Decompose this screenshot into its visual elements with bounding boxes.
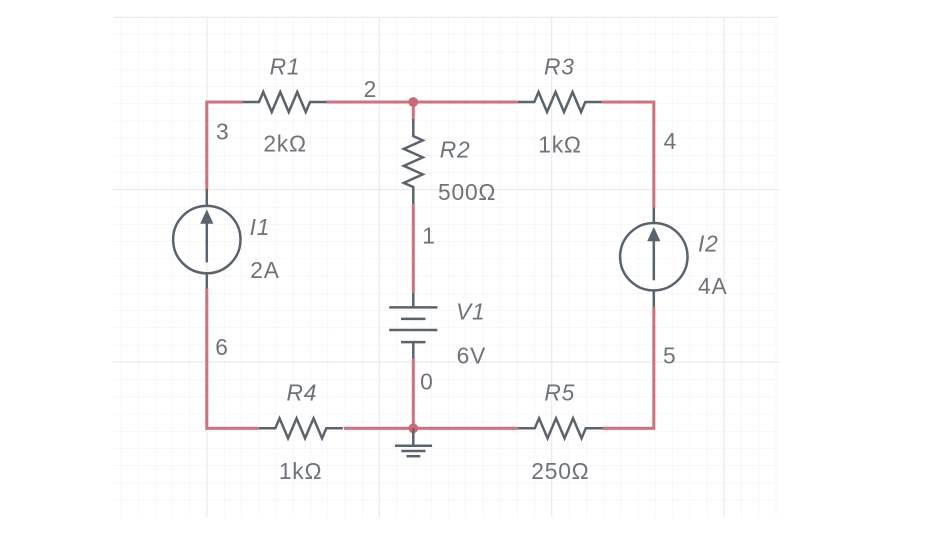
- svg-text:250Ω: 250Ω: [531, 458, 589, 484]
- svg-text:I1: I1: [250, 214, 271, 240]
- resistor R5: [518, 418, 602, 438]
- ground: [395, 428, 432, 456]
- svg-text:4A: 4A: [698, 273, 727, 299]
- svg-text:2kΩ: 2kΩ: [263, 131, 307, 157]
- resistor R3: [518, 92, 602, 112]
- junction node 0: [408, 423, 418, 433]
- svg-text:2: 2: [364, 76, 377, 102]
- resistor R2: [404, 119, 423, 204]
- svg-text:I2: I2: [698, 230, 719, 256]
- wire node 1 between R2 and V1: [412, 204, 415, 292]
- junction node 2: [408, 97, 418, 107]
- svg-text:R4: R4: [287, 379, 318, 405]
- svg-text:6: 6: [215, 334, 228, 360]
- wire bottom-right corner (node 5 run): [602, 307, 654, 428]
- svg-text:4: 4: [664, 128, 677, 154]
- svg-text:3: 3: [216, 119, 229, 145]
- wire left lower (node 6 run): [207, 289, 259, 429]
- svg-text:5: 5: [663, 343, 676, 369]
- current source I2: [620, 207, 687, 307]
- svg-text:R2: R2: [440, 137, 471, 163]
- svg-text:1: 1: [422, 222, 435, 248]
- resistor R4: [259, 418, 343, 438]
- svg-text:1kΩ: 1kΩ: [279, 458, 323, 484]
- wire mid stub node 2 to R2: [412, 102, 415, 119]
- svg-text:1kΩ: 1kΩ: [538, 131, 582, 157]
- wire top-mid (node 2): [327, 100, 518, 103]
- svg-text:6V: 6V: [457, 343, 486, 369]
- svg-text:0: 0: [420, 368, 433, 394]
- wire below V1 to node 0: [412, 359, 415, 429]
- svg-text:R3: R3: [544, 53, 575, 79]
- svg-text:2A: 2A: [250, 257, 279, 283]
- svg-text:V1: V1: [456, 298, 485, 324]
- svg-text:R5: R5: [544, 379, 575, 405]
- battery V1: [389, 293, 437, 359]
- current source I1: [173, 189, 240, 289]
- wire bottom-mid (node 0): [344, 427, 518, 430]
- svg-text:500Ω: 500Ω: [438, 179, 496, 205]
- wire top-right corner (node 4 run): [602, 102, 654, 207]
- svg-text:R1: R1: [270, 53, 301, 79]
- wire top-left corner (node 3 run): [207, 102, 243, 189]
- resistor R1: [243, 92, 327, 112]
